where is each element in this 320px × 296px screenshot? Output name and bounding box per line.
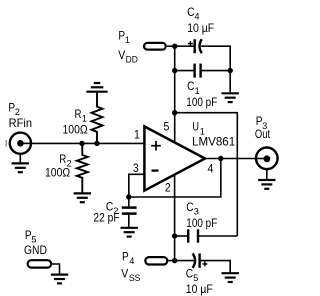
svg-text:5: 5 bbox=[164, 120, 170, 133]
svg-text:1: 1 bbox=[82, 114, 87, 124]
svg-text:Out: Out bbox=[255, 128, 271, 141]
connector P3 bbox=[256, 148, 278, 170]
wire C3 left bbox=[175, 235, 188, 237]
wire C1 right bbox=[202, 70, 231, 72]
svg-text:10 µF: 10 µF bbox=[187, 22, 214, 35]
connector P5 bbox=[28, 260, 52, 267]
svg-text:1: 1 bbox=[125, 35, 130, 45]
svg-text:22 pF: 22 pF bbox=[93, 211, 119, 224]
svg-text:100 pF: 100 pF bbox=[186, 96, 217, 109]
svg-text:V: V bbox=[118, 49, 125, 62]
capacitor C5 bbox=[193, 253, 200, 267]
wire P2 to op-amp +input bbox=[20, 142, 143, 144]
op-amp U1 bbox=[144, 126, 205, 190]
wire top rail to C3 right bbox=[175, 113, 238, 236]
wire C5 right to ground bbox=[200, 261, 230, 273]
connector P4 bbox=[145, 257, 167, 264]
svg-text:3: 3 bbox=[133, 162, 139, 175]
junction node C2 / pin 3 bbox=[126, 194, 131, 199]
ground at C1 bbox=[222, 93, 239, 102]
ground under R2 bbox=[74, 193, 91, 202]
ground at C5 bbox=[222, 273, 239, 282]
resistor R1 bbox=[92, 92, 103, 144]
svg-text:V: V bbox=[121, 267, 128, 280]
svg-text:C: C bbox=[186, 267, 193, 280]
junction node R2 tap bbox=[79, 141, 84, 146]
svg-text:R: R bbox=[75, 108, 82, 121]
svg-text:3: 3 bbox=[194, 207, 199, 217]
wire output pin 4 to P3 bbox=[205, 158, 267, 160]
svg-text:2: 2 bbox=[15, 107, 20, 117]
ground at P5 bbox=[51, 275, 68, 284]
capacitor C3 bbox=[188, 229, 198, 242]
wire VDD rail down to pin 5 bbox=[174, 46, 176, 143]
svg-text:R: R bbox=[59, 153, 66, 166]
wire C2 top stem bbox=[128, 197, 130, 206]
ground under C2 bbox=[121, 228, 138, 237]
stub mark left of P2 bbox=[5, 140, 7, 147]
wire C4 right to ground corner bbox=[201, 46, 230, 70]
svg-text:100Ω: 100Ω bbox=[45, 167, 70, 180]
svg-text:P: P bbox=[122, 250, 129, 263]
connector P1 bbox=[144, 43, 166, 50]
wire C2 bottom stem bbox=[128, 215, 130, 227]
wire op-amp pin 2 down bbox=[174, 173, 176, 260]
resistor R2 bbox=[77, 143, 88, 192]
junction node VDD at P1 bbox=[172, 44, 177, 49]
svg-text:10 µF: 10 µF bbox=[186, 283, 213, 296]
wire C3 right bbox=[198, 235, 237, 237]
plus mark C4 bbox=[188, 41, 193, 46]
svg-text:5: 5 bbox=[193, 273, 198, 283]
capacitor C2 bbox=[122, 208, 137, 214]
connector P2 bbox=[10, 133, 31, 154]
junction node output pin 4 bbox=[218, 156, 223, 161]
wire pin 3 stub bbox=[129, 174, 144, 197]
svg-text:SS: SS bbox=[129, 273, 141, 283]
svg-text:1: 1 bbox=[195, 86, 200, 96]
ground under P3 bbox=[258, 180, 275, 189]
svg-text:5: 5 bbox=[31, 234, 36, 244]
junction node C1 top left bbox=[172, 68, 177, 73]
wire ground stem C1 bbox=[229, 71, 231, 93]
svg-text:DD: DD bbox=[126, 54, 139, 64]
svg-text:RFin: RFin bbox=[9, 117, 32, 130]
svg-text:100 pF: 100 pF bbox=[186, 217, 217, 230]
wire P3 ground stem bbox=[266, 170, 268, 179]
capacitor C4 bbox=[195, 39, 202, 53]
junction node P4 / C5 bbox=[172, 258, 177, 263]
junction node R1 tap bbox=[94, 141, 99, 146]
junction node top rail bbox=[172, 110, 177, 115]
ground under P2 bbox=[12, 163, 29, 172]
wire C5 left bbox=[175, 260, 194, 262]
junction node C1 right bbox=[228, 68, 233, 73]
wire P5 to ground bbox=[52, 264, 60, 274]
wire P4 to C5 node bbox=[168, 260, 174, 262]
svg-text:100Ω: 100Ω bbox=[63, 124, 88, 137]
wire P1 to C4 bbox=[167, 45, 194, 47]
svg-text:4: 4 bbox=[208, 162, 214, 175]
svg-text:4: 4 bbox=[129, 256, 134, 266]
capacitor C1 bbox=[195, 64, 201, 78]
svg-text:LMV861: LMV861 bbox=[192, 136, 235, 149]
svg-text:C: C bbox=[186, 201, 193, 214]
wire P2 ground stem bbox=[19, 154, 21, 163]
svg-text:2: 2 bbox=[165, 182, 171, 195]
svg-text:4: 4 bbox=[195, 12, 200, 22]
wire feedback pin 4 to pin 3 bbox=[129, 159, 221, 198]
plus mark C5 bbox=[202, 262, 207, 267]
svg-text:C: C bbox=[187, 6, 194, 19]
svg-text:U: U bbox=[192, 120, 199, 133]
junction node C3 left bbox=[172, 233, 177, 238]
svg-text:C: C bbox=[187, 80, 194, 93]
svg-text:1: 1 bbox=[134, 129, 140, 142]
supply rail symbol above R1 bbox=[86, 83, 107, 92]
wire C1 left bbox=[175, 70, 194, 72]
svg-text:GND: GND bbox=[24, 244, 47, 257]
